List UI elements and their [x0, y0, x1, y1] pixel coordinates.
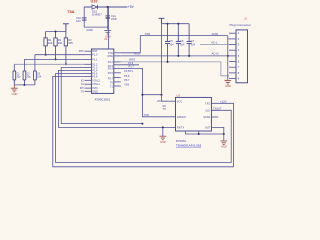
wire RXD long	[121, 55, 229, 57]
svg-text:U10: U10	[91, 0, 98, 4]
svg-text:10K: 10K	[48, 41, 53, 45]
ground G3	[225, 81, 232, 85]
net labels U1 right	[124, 62, 134, 86]
svg-text:P1.7: P1.7	[129, 64, 135, 68]
svg-text:1N4007: 1N4007	[92, 12, 102, 16]
junction	[141, 94, 143, 96]
svg-text:XTAL1: XTAL1	[92, 83, 100, 86]
wire pullup rail	[46, 31, 66, 33]
svg-text:104: 104	[180, 43, 185, 46]
svg-text:GND: GND	[221, 145, 227, 149]
junction	[167, 61, 169, 63]
op-amp U2 modem box	[176, 97, 212, 131]
svg-text:P1.6: P1.6	[92, 75, 98, 78]
wire U1 VCC top pin	[108, 7, 110, 49]
svg-text:AT89C2051: AT89C2051	[95, 97, 111, 101]
capacitor C7	[187, 24, 192, 56]
svg-text:P3.5: P3.5	[108, 72, 114, 75]
wire bottom link	[84, 26, 108, 28]
svg-text:AC-L: AC-L	[211, 41, 218, 45]
wire P1.7 to modem	[121, 68, 176, 116]
junction	[223, 133, 225, 135]
wire riser C2	[23, 59, 25, 71]
connector J1 body	[236, 30, 248, 83]
pin names U2	[177, 100, 186, 129]
capacitor C10	[82, 18, 87, 20]
svg-text:104: 104	[169, 43, 174, 46]
wire TXD loop up	[121, 36, 228, 53]
ground G4	[221, 141, 228, 145]
junction	[55, 31, 57, 33]
svg-text:DATAIN: DATAIN	[177, 116, 186, 119]
junction node +5V	[107, 6, 109, 8]
svg-text:TDA5051A/N1,518: TDA5051A/N1,518	[176, 143, 202, 147]
svg-text:P3.5/T1: P3.5/T1	[124, 70, 133, 73]
capacitor C11 electrolytic	[105, 16, 110, 18]
capacitor C2	[23, 71, 26, 85]
wire +5V rail top	[84, 6, 127, 8]
wire loop B	[58, 71, 175, 128]
pin stubs U1 left	[85, 51, 92, 91]
junction	[162, 126, 164, 128]
resistor R1	[44, 32, 47, 55]
wire bus3	[14, 63, 84, 65]
svg-text:30p: 30p	[16, 76, 21, 79]
ground G5	[160, 136, 167, 140]
pin stubs U2 right	[211, 116, 218, 118]
wire ground tap left	[162, 127, 164, 136]
junction	[141, 123, 143, 125]
pin stubs U2 left	[169, 100, 176, 102]
svg-text:GND: GND	[12, 92, 18, 96]
svg-text:U2: U2	[104, 37, 108, 41]
svg-text:RST: RST	[79, 50, 84, 53]
svg-text:P3.7: P3.7	[108, 77, 114, 80]
junction	[177, 55, 179, 57]
wire U2 feedback loop	[186, 127, 224, 134]
svg-text:OUT: OUT	[205, 127, 211, 130]
svg-text:ACIN: ACIN	[212, 32, 219, 36]
svg-text:VCC: VCC	[177, 100, 182, 103]
wire VCC drop	[162, 24, 169, 102]
capacitor C1	[13, 71, 16, 85]
junction	[188, 55, 190, 57]
wire left branch	[83, 7, 85, 27]
svg-text:P3.7: P3.7	[124, 79, 130, 82]
junction	[227, 55, 229, 57]
svg-text:SCAN: SCAN	[203, 116, 210, 119]
wire bus1	[35, 54, 85, 56]
svg-text:P1.0: P1.0	[92, 54, 98, 57]
svg-text:104: 104	[191, 43, 196, 46]
wire cap rail	[162, 23, 190, 25]
svg-text:GND: GND	[160, 140, 166, 144]
svg-text:P3.2: P3.2	[108, 61, 114, 64]
svg-text:P3.6: P3.6	[124, 75, 130, 78]
junction R3	[65, 63, 67, 65]
wire INT elbow	[121, 62, 229, 76]
svg-text:RXD: RXD	[134, 51, 140, 55]
wire AC-L	[200, 44, 229, 46]
junction	[198, 133, 200, 135]
junction R1	[45, 54, 47, 56]
wire riser Y1	[13, 64, 15, 71]
wire ground stub U2	[223, 134, 225, 141]
svg-text:GND: GND	[225, 84, 231, 88]
pin stubs U1 right	[114, 53, 139, 86]
svg-text:Plug Connector: Plug Connector	[230, 23, 251, 27]
wire connector drop	[228, 36, 229, 81]
svg-text:TX: TX	[163, 108, 167, 111]
svg-text:T8A: T8A	[67, 9, 75, 14]
svg-text:+12V: +12V	[220, 99, 227, 103]
capacitor C5	[165, 24, 170, 62]
svg-text:TXOUT: TXOUT	[213, 108, 222, 111]
wire loop C	[56, 74, 232, 163]
svg-text:10K: 10K	[68, 41, 73, 45]
junction R2	[55, 58, 57, 60]
junction	[177, 23, 179, 25]
capacitor C3	[34, 71, 37, 85]
ground G2	[11, 85, 18, 92]
ground G1	[104, 31, 111, 34]
svg-text:TXO: TXO	[205, 102, 210, 105]
svg-text:P3.4: P3.4	[108, 67, 114, 70]
svg-text:10K: 10K	[58, 41, 63, 45]
op-amp U1 main MCU box	[91, 49, 113, 93]
pin names U1 inside	[92, 50, 100, 93]
net labels U1 left	[79, 50, 85, 93]
svg-text:VSS: VSS	[124, 83, 129, 86]
svg-text:J1: J1	[244, 16, 247, 20]
svg-text:22uF: 22uF	[111, 17, 117, 21]
svg-text:TXD: TXD	[144, 114, 149, 117]
svg-text:104: 104	[76, 19, 81, 23]
power VCC2	[159, 18, 165, 23]
wire loop A	[61, 68, 142, 124]
wire riser C3	[34, 55, 36, 71]
svg-text:+5V: +5V	[128, 5, 135, 9]
svg-text:+5V: +5V	[157, 100, 162, 103]
svg-text:104: 104	[37, 76, 42, 79]
wire VCC feed	[142, 94, 161, 96]
svg-text:GND: GND	[86, 28, 92, 32]
svg-text:GND: GND	[92, 90, 98, 93]
wire bus2	[24, 58, 84, 60]
pin numbers J1	[238, 32, 240, 80]
wire right branch	[107, 7, 109, 30]
svg-text:P1.1: P1.1	[92, 58, 98, 61]
capacitor C6	[176, 24, 181, 56]
resistor R2	[54, 32, 57, 60]
pin stubs J1	[229, 33, 236, 78]
wire loop D	[53, 76, 234, 166]
junction	[23, 84, 25, 86]
svg-text:RX/TX: RX/TX	[177, 127, 185, 130]
svg-text:TXD: TXD	[145, 32, 151, 36]
junction	[161, 94, 163, 96]
junction	[167, 23, 169, 25]
resistor R3	[64, 32, 67, 65]
svg-text:RXD: RXD	[108, 55, 113, 58]
wire ground rail left	[14, 84, 35, 86]
power VCC1	[63, 24, 69, 32]
diode D10	[92, 5, 97, 10]
svg-text:INT0: INT0	[129, 58, 136, 62]
svg-text:XTAL2: XTAL2	[92, 79, 100, 82]
svg-text:CLK: CLK	[205, 109, 210, 112]
svg-text:RX9151: RX9151	[176, 139, 187, 143]
svg-text:30p: 30p	[27, 76, 32, 79]
svg-text:AC-N: AC-N	[212, 52, 219, 56]
